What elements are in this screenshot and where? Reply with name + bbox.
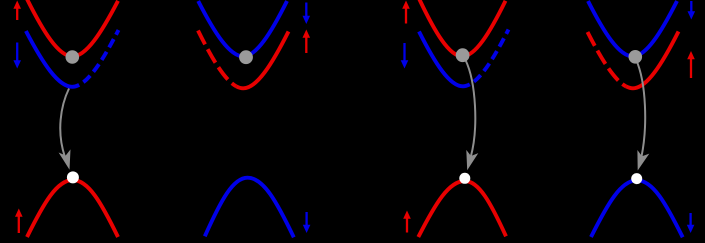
photoexcited electron (gray dot) panel 2	[239, 50, 253, 64]
valence band (blue) panel 2	[205, 178, 294, 238]
recombination arrow panel 4	[636, 60, 649, 171]
spin-down arrow (blue, conduction) panel 4	[688, 1, 696, 20]
conduction band lower (red) dashed branch panel 2	[198, 31, 236, 87]
conduction band lower (blue) solid branch panel 1	[26, 31, 79, 87]
recombination arrow panel 1	[59, 89, 71, 170]
conduction band lower (blue) dashed branch panel 1	[79, 30, 118, 85]
valence band (red) panel 1	[27, 180, 118, 237]
conduction band lower (red) solid branch panel 4	[626, 32, 679, 89]
spin-up arrow (red, conduction) panel 1	[13, 1, 21, 21]
hole (white dot) panel 1	[67, 171, 79, 183]
photoexcited electron (gray dot) panel 3	[456, 48, 470, 62]
spin-up arrow (red, valence) panel 3	[403, 211, 411, 233]
spin-up arrow (red, conduction) panel 4	[687, 51, 695, 78]
conduction band lower (blue) solid branch panel 3	[419, 32, 470, 87]
hole (white dot) panel 3	[459, 173, 470, 184]
spin-down arrow (blue, conduction) panel 3	[401, 43, 409, 69]
valence band (blue) panel 4	[591, 180, 683, 237]
hole (white dot) panel 4	[631, 173, 642, 184]
conduction band upper (red) panel 1	[27, 0, 119, 56]
conduction band upper (blue) panel 4	[588, 1, 677, 56]
conduction band lower (red) dashed branch panel 4	[588, 32, 627, 86]
spin-down arrow (blue, conduction) panel 2	[303, 3, 311, 25]
conduction band lower (blue) dashed branch panel 3	[470, 30, 509, 85]
valence band (red) panel 3	[418, 181, 506, 237]
photoexcited electron (gray dot) panel 4	[629, 50, 643, 64]
photoexcited electron (gray dot) panel 1	[66, 50, 80, 64]
spin-down arrow (blue, conduction) panel 1	[13, 43, 21, 69]
conduction band upper (red) panel 3	[419, 0, 506, 56]
conduction band lower (red) solid branch panel 2	[236, 32, 288, 89]
recombination arrow panel 3	[466, 60, 479, 170]
spin-up arrow (red, conduction) panel 3	[402, 1, 410, 24]
spin-up arrow (red, valence) panel 1	[15, 209, 23, 234]
spin-down arrow (blue, valence) panel 2	[303, 212, 311, 233]
spin-down arrow (blue, valence) panel 4	[687, 213, 695, 233]
spin-up arrow (red, conduction) panel 2	[303, 30, 311, 54]
conduction band upper (blue) panel 2	[198, 1, 287, 56]
